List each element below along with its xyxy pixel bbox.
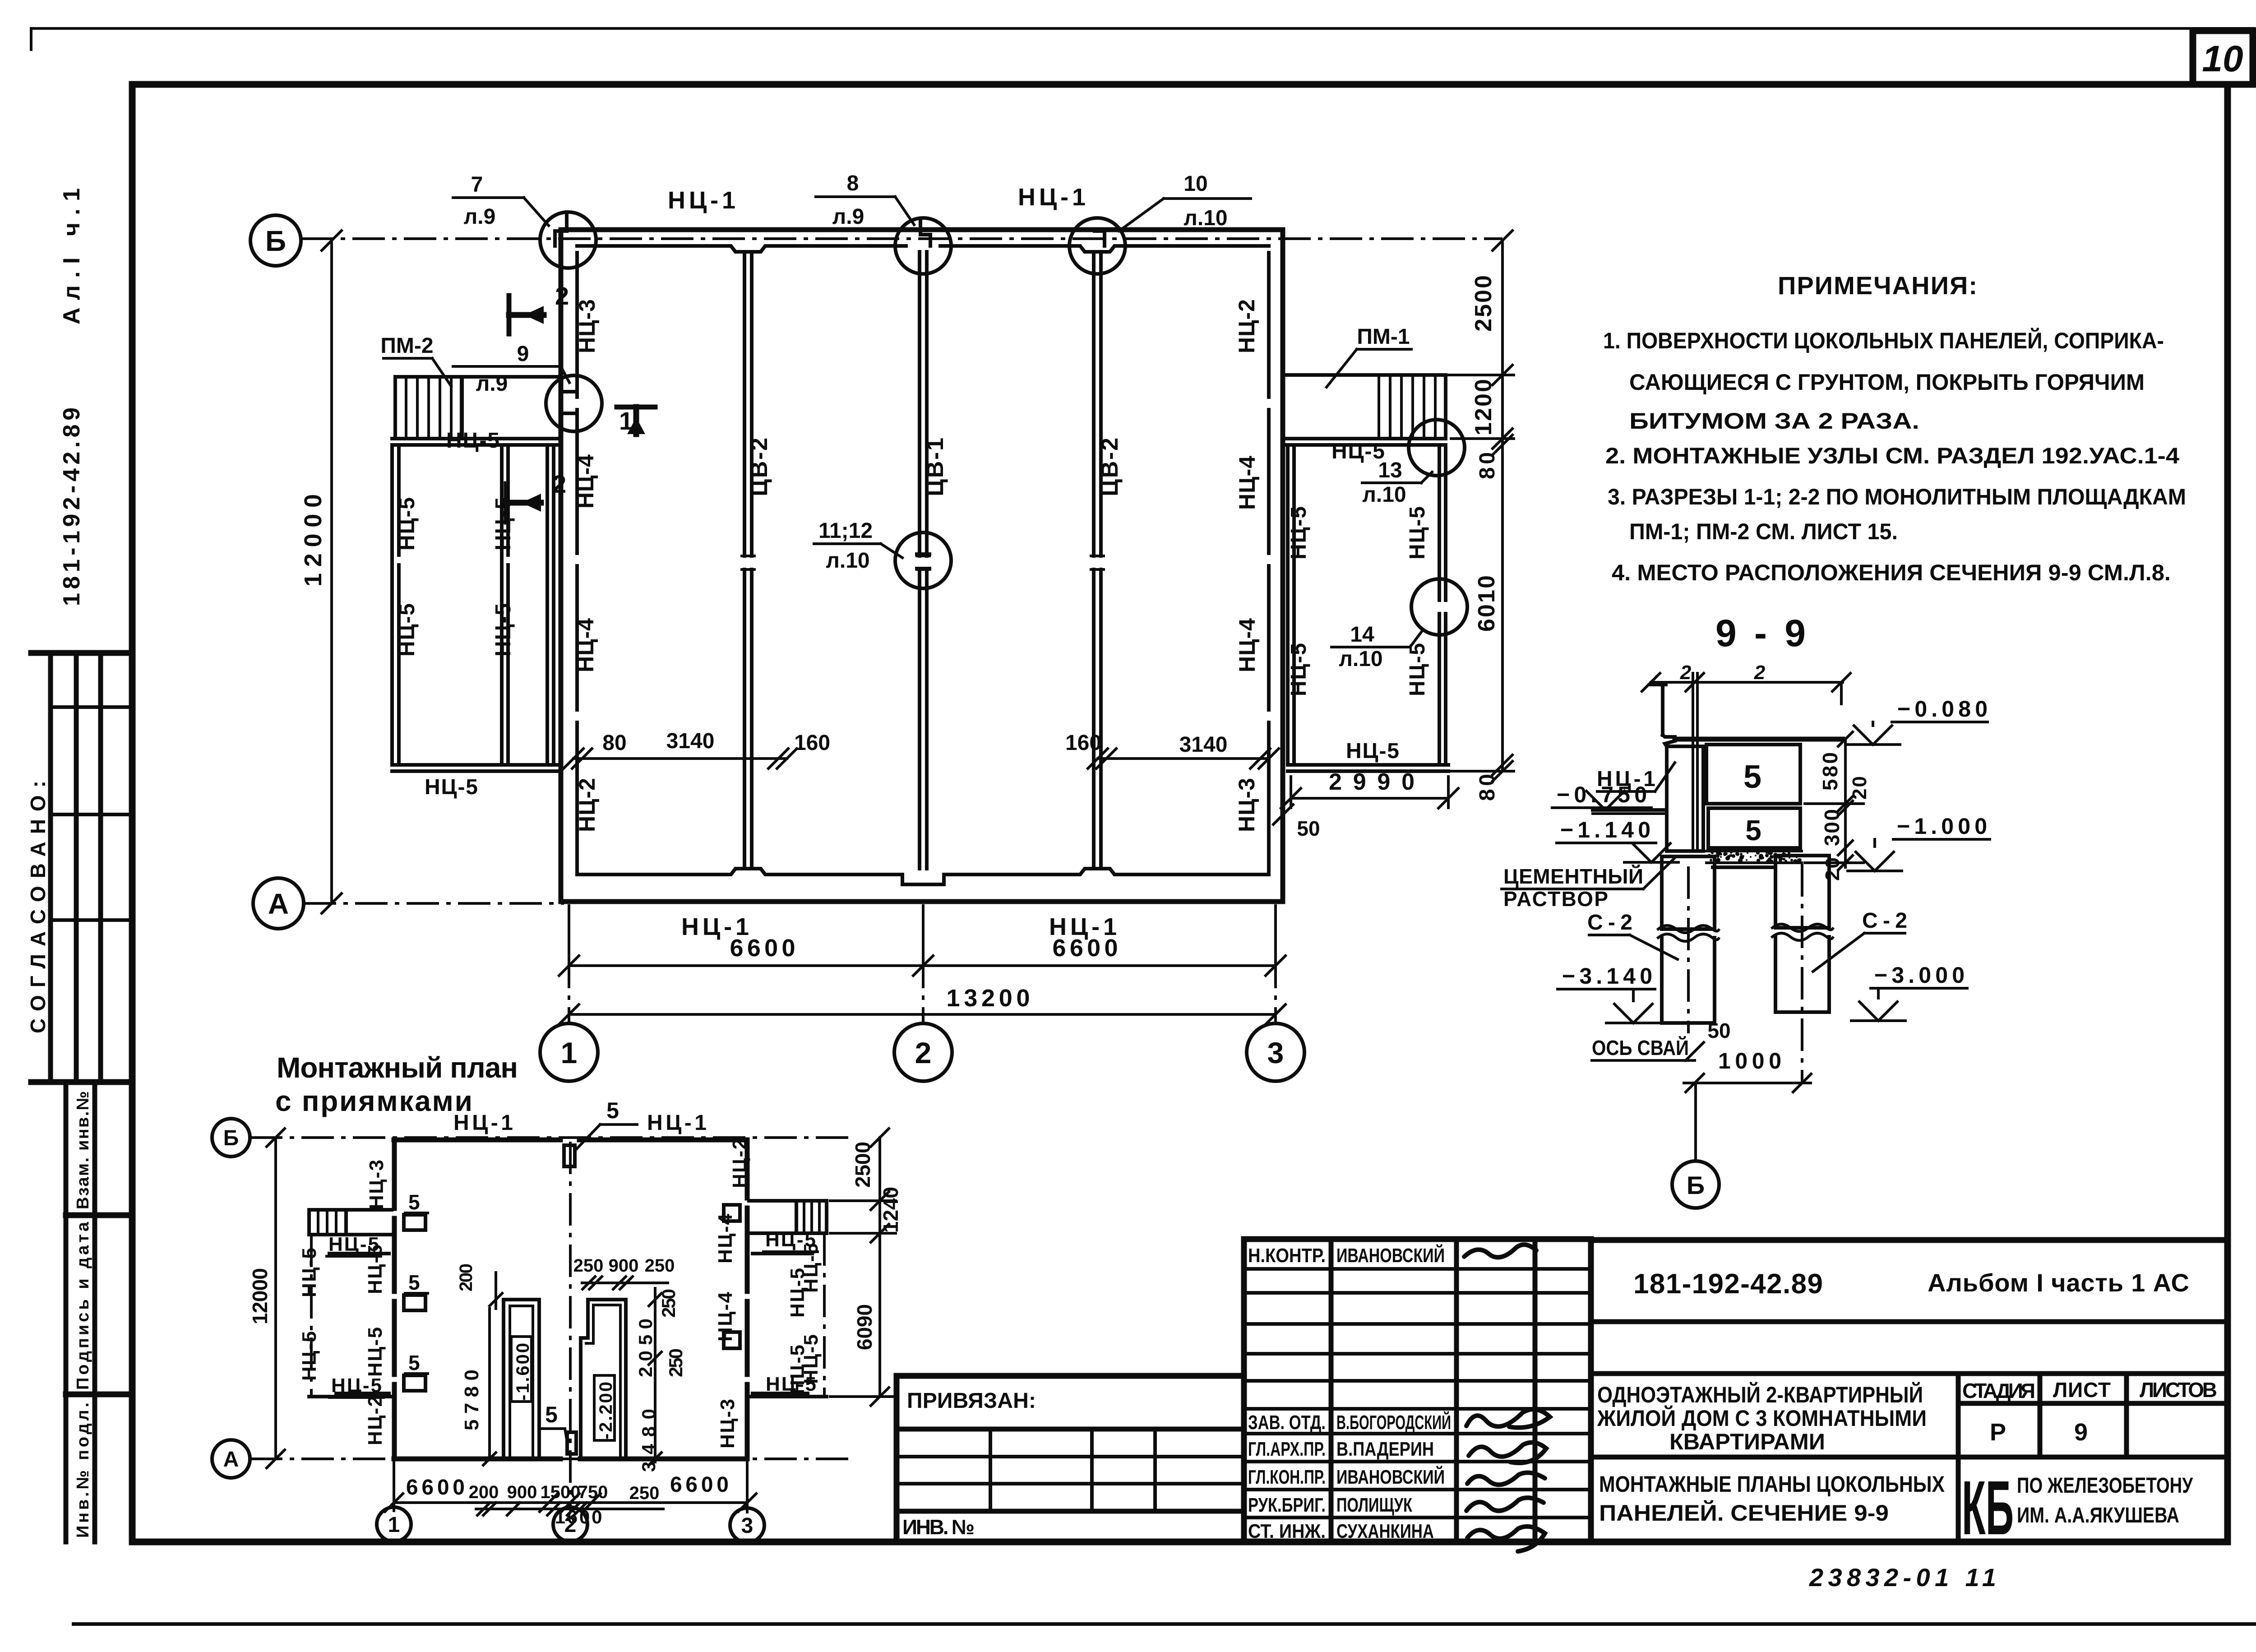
svg-text:л.10: л.10 — [1362, 483, 1406, 507]
svg-text:-2.200: -2.200 — [596, 1382, 616, 1439]
dim 2990 — [1281, 769, 1458, 808]
svg-text:181-192-42.89: 181-192-42.89 — [1633, 1268, 1823, 1300]
svg-text:Подпись и дата: Подпись и дата — [74, 1222, 92, 1390]
привязан label — [907, 1389, 1038, 1413]
partition ЦВ-1 — [917, 252, 929, 869]
svg-text:НЦ-5: НЦ-5 — [328, 1233, 379, 1255]
axis 3 stub (lower) — [746, 1462, 749, 1512]
svg-text:л.10: л.10 — [826, 549, 869, 573]
svg-text:750: 750 — [578, 1482, 608, 1502]
label Взам. инв.№ — [74, 1091, 92, 1209]
pile С-2 left — [1658, 856, 1719, 1023]
svg-text:ЛИСТ: ЛИСТ — [2053, 1378, 2111, 1402]
note line 6 — [1629, 519, 1898, 544]
svg-text:9-9: 9-9 — [1715, 612, 1806, 654]
svg-text:ЦВ-2: ЦВ-2 — [1097, 438, 1123, 496]
note line 4 — [1605, 443, 2179, 468]
svg-text:ЦВ-1: ЦВ-1 — [922, 438, 948, 496]
lower label НЦ-5 — [329, 1374, 384, 1397]
svg-text:НЦ-4: НЦ-4 — [714, 1291, 736, 1342]
svg-text:80: 80 — [602, 731, 626, 755]
wall panel label НЦ-3 — [1234, 778, 1259, 832]
lower label НЦ-5 rot — [364, 1327, 386, 1377]
note line 1 — [1603, 328, 2164, 353]
left margin code 181-192-42.89 — [59, 407, 85, 606]
project name line 2 — [1597, 1405, 1927, 1431]
svg-text:ПАНЕЛЕЙ. СЕЧЕНИЕ 9-9: ПАНЕЛЕЙ. СЕЧЕНИЕ 9-9 — [1599, 1500, 1889, 1526]
svg-text:ПОЛИЩУК: ПОЛИЩУК — [1336, 1494, 1412, 1516]
ground line left — [1593, 810, 1667, 814]
partition ЦВ-2 — [742, 252, 754, 869]
left annex west wall НЦ-5 — [392, 445, 399, 765]
leader 10 л.10 — [1119, 172, 1251, 231]
wall panel label НЦ-2 — [574, 778, 600, 832]
stage Р — [1990, 1419, 2006, 1446]
lower right annex pad — [749, 1201, 827, 1233]
annex panel label НЦ-5 — [491, 497, 515, 551]
axis circle 1 — [540, 1023, 598, 1081]
label НЦ-1 lower top left — [453, 1111, 513, 1135]
leader 13 л.10 — [1362, 458, 1432, 507]
svg-text:НЦ-4: НЦ-4 — [1234, 618, 1260, 672]
left annex monolithic pad ПМ-2 — [395, 377, 561, 439]
cement mortar band — [1706, 851, 1802, 864]
привязан table grid — [897, 1376, 1244, 1542]
header ЛИСТОВ — [2140, 1378, 2217, 1402]
svg-text:3. РАЗРЕЗЫ 1-1; 2-2 ПО МОНОЛИТ: 3. РАЗРЕЗЫ 1-1; 2-2 ПО МОНОЛИТНЫМ ПЛОЩАД… — [1608, 484, 2186, 509]
annex panel label НЦ-5 — [1287, 506, 1311, 560]
wall panel label НЦ-4 — [573, 454, 598, 509]
svg-text:3140: 3140 — [1179, 733, 1228, 757]
annex panel label НЦ-5 — [446, 429, 499, 453]
dim 6600 1600 6600 (lower bottom) — [385, 1473, 756, 1527]
wall panel label НЦ-4 — [573, 618, 598, 672]
signature squiggle 2 — [1466, 1409, 1550, 1428]
svg-text:Р: Р — [1990, 1419, 2006, 1446]
lower left annex pad — [309, 1210, 392, 1235]
svg-text:10: 10 — [2202, 38, 2243, 79]
dim 50 (pile axis offset) — [1707, 1019, 1730, 1042]
svg-text:5: 5 — [408, 1190, 420, 1214]
svg-text:Б: Б — [265, 225, 286, 257]
pit 1 (-1.600) — [504, 1300, 539, 1459]
svg-text:л.9: л.9 — [464, 205, 496, 229]
label НЦ-1 bottom right — [1049, 913, 1117, 940]
svg-text:НЦ-1: НЦ-1 — [453, 1111, 513, 1135]
lower label НЦ-4 rot — [714, 1291, 736, 1342]
level -1.140 — [1557, 817, 1678, 862]
axis 2 line (lower) — [569, 1142, 572, 1511]
svg-text:НЦ-1: НЦ-1 — [647, 1111, 707, 1135]
left annex inner wall НЦ-5 (b) — [547, 445, 554, 765]
detail circle 13 л.10 — [1409, 420, 1465, 476]
svg-text:с приямками: с приямками — [275, 1085, 472, 1117]
detail circle 7 л.9 — [540, 212, 596, 268]
logo по железобетону — [2017, 1474, 2193, 1498]
svg-text:НЦ-5: НЦ-5 — [1287, 506, 1311, 560]
svg-text:300: 300 — [1820, 809, 1844, 846]
svg-text:НЦ-5: НЦ-5 — [395, 497, 419, 551]
dim 12000 (lower) — [248, 1129, 285, 1468]
label Подпись и дата — [74, 1222, 92, 1390]
svg-text:250: 250 — [629, 1483, 660, 1503]
svg-text:5: 5 — [1745, 814, 1761, 847]
marker 5 bottom — [540, 1402, 576, 1454]
wall НЦ-1 along А (bottom) — [561, 869, 1283, 902]
detail circle 9 л.9 — [546, 375, 602, 431]
lower left inventory table — [66, 1082, 129, 1542]
dim 200 (pit1 top) — [456, 1263, 502, 1309]
svg-text:160: 160 — [1065, 731, 1101, 755]
svg-text:НЦ-3: НЦ-3 — [717, 1399, 739, 1448]
level -3.000 — [1851, 963, 1967, 1021]
svg-text:ЦЕМЕНТНЫЙ: ЦЕМЕНТНЫЙ — [1503, 865, 1643, 888]
инв № label — [902, 1515, 975, 1539]
wall panel label НЦ-3 — [574, 299, 600, 353]
svg-text:НЦ-2: НЦ-2 — [729, 1138, 751, 1188]
axis Б line (lower) — [250, 1136, 855, 1139]
wall panel label НЦ-4 — [1234, 456, 1260, 510]
header СТАДИЯ — [1962, 1379, 2035, 1402]
svg-text:ЦВ-2: ЦВ-2 — [746, 438, 772, 496]
axis 2 line — [922, 904, 925, 1022]
left annex inner wall НЦ-5 (a) — [502, 445, 508, 765]
leader 9 л.9 — [453, 342, 569, 396]
annex panel label НЦ-5 — [395, 603, 419, 657]
svg-text:НЦ-4: НЦ-4 — [714, 1213, 736, 1263]
svg-text:ИВАНОВСКИЙ: ИВАНОВСКИЙ — [1336, 1465, 1445, 1488]
svg-text:НЦ-5: НЦ-5 — [1405, 506, 1429, 560]
label НЦ-1 top right — [1018, 184, 1086, 211]
label НЦ-1 bottom left — [681, 913, 749, 940]
signature row Гл.арх.пр. В.Падерин — [1248, 1438, 1434, 1460]
partition ЦВ-2 — [1091, 252, 1104, 869]
svg-text:5: 5 — [408, 1271, 420, 1294]
label С-2 left — [1587, 911, 1678, 959]
handwritten 23832-01 11 — [1809, 1563, 1999, 1592]
partition label ЦВ-2 — [746, 438, 772, 496]
lower plan left wall — [392, 1140, 397, 1459]
svg-text:23832-01 11: 23832-01 11 — [1809, 1563, 1999, 1592]
svg-text:л.9: л.9 — [476, 372, 508, 396]
logo им. А.А.Якушева — [2017, 1504, 2179, 1527]
svg-text:А: А — [268, 888, 289, 920]
annex panel label НЦ-5 — [425, 775, 478, 799]
svg-text:580: 580 — [1818, 752, 1842, 791]
joint step in circle 8 — [920, 220, 930, 246]
joint step in circle 7 — [555, 212, 567, 246]
svg-text:НЦ-4: НЦ-4 — [1234, 456, 1260, 510]
svg-text:Н.КОНТР.: Н.КОНТР. — [1248, 1245, 1326, 1267]
project name line 3 — [1669, 1429, 1825, 1454]
annex panel label НЦ-5 — [1287, 643, 1311, 696]
axis circle 3 — [1247, 1023, 1304, 1081]
marker 5 left 1 — [404, 1190, 428, 1230]
svg-text:ПРИВЯЗАН:: ПРИВЯЗАН: — [907, 1389, 1038, 1413]
svg-text:Б: Б — [1687, 1171, 1705, 1199]
annex panel label НЦ-5 — [1405, 643, 1429, 696]
svg-text:11;12: 11;12 — [818, 519, 873, 543]
СОГЛАСОВАНО label — [26, 781, 50, 1033]
project name line 1 — [1597, 1382, 1923, 1407]
svg-text:3: 3 — [1267, 1036, 1284, 1069]
level -3.140 — [1558, 963, 1660, 1023]
lower label НЦ-5 rot — [800, 1243, 822, 1293]
svg-text:ЗАВ. ОТД.: ЗАВ. ОТД. — [1248, 1411, 1326, 1434]
svg-text:ИМ. А.А.ЯКУШЕВА: ИМ. А.А.ЯКУШЕВА — [2017, 1504, 2179, 1527]
marker 5 left 3 — [404, 1351, 428, 1391]
marker 5 left 2 — [404, 1271, 428, 1310]
wall axis double line — [1693, 673, 1697, 851]
signature row Гл.кон.пр. Ивановский — [1248, 1465, 1445, 1488]
svg-text:ОДНОЭТАЖНЫЙ 2-КВАРТИРНЫЙ: ОДНОЭТАЖНЫЙ 2-КВАРТИРНЫЙ — [1597, 1382, 1923, 1407]
title Монтажный план — [277, 1051, 518, 1084]
svg-text:МОНТАЖНЫЕ ПЛАНЫ ЦОКОЛЬНЫХ: МОНТАЖНЫЕ ПЛАНЫ ЦОКОЛЬНЫХ — [1599, 1472, 1945, 1497]
svg-text:НЦ-3: НЦ-3 — [1234, 778, 1259, 832]
svg-text:ПО ЖЕЛЕЗОБЕТОНУ: ПО ЖЕЛЕЗОБЕТОНУ — [2017, 1474, 2193, 1498]
dim 5780 — [461, 1309, 496, 1465]
page trim bottom line — [74, 1622, 2256, 1626]
svg-text:В.БОГОРОДСКИЙ: В.БОГОРОДСКИЙ — [1336, 1411, 1451, 1434]
note line 7 — [1612, 560, 2171, 585]
svg-text:3140: 3140 — [666, 729, 715, 753]
lower label НЦ-5 rot — [800, 1334, 822, 1384]
svg-text:14: 14 — [1350, 623, 1374, 647]
sheet name line 2 — [1599, 1500, 1889, 1526]
label ось свай — [1592, 1036, 1704, 1060]
wall НЦ-1 along Б (top) — [561, 230, 1283, 252]
annex panel label НЦ-5 — [1405, 506, 1429, 560]
dim 6600+6600 — [559, 918, 1285, 976]
svg-text:САЮЩИЕСЯ С ГРУНТОМ, ПОКРЫТЬ ГО: САЮЩИЕСЯ С ГРУНТОМ, ПОКРЫТЬ ГОРЯЧИМ — [1629, 370, 2145, 395]
signature squiggle 1 — [1464, 1245, 1536, 1257]
svg-text:8: 8 — [847, 171, 859, 195]
lower label НЦ-3 rot — [717, 1399, 739, 1448]
svg-text:ЖИЛОЙ ДОМ С 3 КОМНАТНЫМИ: ЖИЛОЙ ДОМ С 3 КОМНАТНЫМИ — [1597, 1405, 1927, 1431]
lower label НЦ-5 rot — [298, 1248, 320, 1297]
svg-text:л.9: л.9 — [832, 205, 864, 229]
svg-text:НЦ-5: НЦ-5 — [765, 1229, 816, 1251]
dim 1000 — [1684, 1048, 1811, 1092]
svg-text:РАСТВОР: РАСТВОР — [1503, 887, 1608, 911]
label НЦ-1 top left — [668, 187, 735, 214]
signature squiggle 5 — [1466, 1498, 1544, 1511]
label цементный раствор — [1502, 858, 1675, 911]
svg-text:5: 5 — [545, 1402, 558, 1427]
svg-text:5: 5 — [606, 1098, 619, 1123]
svg-text:1500: 1500 — [541, 1482, 581, 1502]
svg-text:5: 5 — [408, 1351, 420, 1374]
svg-text:РУК.БРИГ.: РУК.БРИГ. — [1248, 1494, 1326, 1516]
pit 2 (-2.200) — [581, 1300, 626, 1459]
svg-text:НЦ-5: НЦ-5 — [331, 1374, 382, 1397]
svg-text:Альбом I часть 1 АС: Альбом I часть 1 АС — [1928, 1268, 2189, 1297]
marker rect right wall a — [724, 1205, 740, 1221]
lower left annex inner lines — [329, 1254, 389, 1393]
annex panel label НЦ-5 — [1331, 440, 1385, 463]
svg-text:13200: 13200 — [947, 985, 1030, 1012]
svg-text:А: А — [223, 1448, 239, 1472]
svg-text:2: 2 — [1680, 662, 1692, 684]
signature squiggle 4 — [1467, 1473, 1545, 1485]
lower label НЦ-5 — [327, 1233, 381, 1256]
svg-text:2: 2 — [555, 282, 569, 310]
svg-text:л.10: л.10 — [1339, 647, 1382, 671]
dim chain 2500 1240 6090 (lower right) — [830, 1129, 902, 1406]
logo КБ — [1962, 1465, 2014, 1551]
dim 250 900 250 (pits top) — [573, 1256, 675, 1289]
svg-text:НЦ-5: НЦ-5 — [298, 1331, 320, 1381]
svg-text:50: 50 — [1297, 817, 1320, 840]
partition label ЦВ-1 — [922, 438, 948, 496]
lower left annex bottom НЦ-5 — [309, 1395, 392, 1398]
block 5 upper — [1706, 745, 1800, 804]
svg-text:2: 2 — [552, 470, 566, 498]
svg-text:ЛИСТОВ: ЛИСТОВ — [2140, 1378, 2217, 1402]
left annex НЦ-5 top panel — [392, 439, 561, 445]
panel НЦ-1 in section — [1665, 741, 1703, 851]
axis 3 line — [1274, 904, 1277, 1022]
dim row 200 900 1500 750 250 — [469, 1482, 663, 1515]
dim row 80 3140 160 (left) — [564, 729, 830, 768]
axis circle А — [253, 878, 304, 929]
lower axis circle Б — [212, 1119, 250, 1157]
svg-text:5: 5 — [1743, 759, 1761, 795]
svg-text:1: 1 — [561, 1036, 578, 1069]
svg-text:250: 250 — [645, 1256, 675, 1276]
signature table grid — [1244, 1239, 1591, 1542]
section mark 2 lower — [506, 470, 566, 522]
label С-2 right — [1813, 909, 1907, 972]
svg-text:181-192-42.89: 181-192-42.89 — [59, 407, 85, 606]
header ЛИСТ — [2053, 1378, 2111, 1402]
grillage line between piles — [1713, 865, 1775, 869]
pile С-2 right — [1772, 856, 1833, 1012]
svg-text:50: 50 — [1707, 1019, 1730, 1042]
pile axes — [1688, 864, 1802, 1083]
svg-text:НЦ-4: НЦ-4 — [573, 618, 598, 672]
svg-text:1240: 1240 — [879, 1187, 902, 1233]
joint step in circle 11,12 — [917, 554, 929, 569]
album Альбом I часть 1 АС — [1928, 1268, 2189, 1297]
svg-text:ГЛ.КОН.ПР.: ГЛ.КОН.ПР. — [1248, 1466, 1326, 1488]
axis Б line — [301, 237, 1502, 240]
note line 5 — [1608, 484, 2186, 509]
lower plan right wall — [745, 1140, 750, 1459]
lower label НЦ-5 rot — [786, 1268, 809, 1318]
axis 1 line — [568, 904, 570, 1022]
signature row Рук.бриг. Полищук — [1248, 1494, 1412, 1516]
svg-text:ПМ-1: ПМ-1 — [1357, 325, 1410, 349]
sheet number box — [2193, 31, 2253, 84]
svg-text:НЦ-5: НЦ-5 — [1331, 440, 1385, 463]
lower label НЦ-5 — [763, 1229, 818, 1252]
signature row Ст. инж. Суханкина — [1248, 1520, 1434, 1542]
svg-text:2500: 2500 — [851, 1142, 874, 1188]
section mark 2 upper — [509, 282, 569, 334]
svg-text:250: 250 — [658, 1289, 679, 1318]
svg-text:НЦ-3: НЦ-3 — [574, 299, 600, 353]
note line 2 — [1629, 370, 2145, 395]
axis А line — [304, 902, 564, 905]
signature row Н.контр. Ивановский — [1248, 1244, 1445, 1267]
svg-text:КВАРТИРАМИ: КВАРТИРАМИ — [1669, 1429, 1825, 1454]
leader 8 л.9 — [816, 171, 914, 229]
svg-text:6090: 6090 — [853, 1304, 876, 1350]
svg-text:л.10: л.10 — [1183, 206, 1227, 230]
section title 9-9 — [1715, 612, 1806, 654]
doc number 181-192-42.89 — [1633, 1268, 1823, 1300]
svg-text:НЦ-3: НЦ-3 — [365, 1160, 388, 1209]
marker 5 top — [564, 1098, 637, 1166]
lower right annex east wall (dashed) — [823, 1233, 826, 1397]
dim 13200 — [559, 985, 1285, 1024]
wall panel label НЦ-2 — [1234, 299, 1259, 353]
axis А line (lower) — [250, 1458, 848, 1460]
level -0.080 — [1846, 696, 1988, 745]
axis circle 2 — [894, 1023, 952, 1081]
svg-text:ИНВ. №: ИНВ. № — [902, 1515, 975, 1539]
svg-text:С-2: С-2 — [1862, 909, 1907, 933]
svg-text:10: 10 — [1183, 172, 1207, 196]
lower right annex bottom НЦ-5 — [749, 1395, 827, 1398]
svg-text:4. МЕСТО РАСПОЛОЖЕНИЯ СЕЧЕНИЯ: 4. МЕСТО РАСПОЛОЖЕНИЯ СЕЧЕНИЯ 9-9 СМ.Л.8… — [1612, 560, 2171, 585]
signature row Зав. отд. В.Богородский — [1248, 1411, 1451, 1434]
svg-text:НЦ-1: НЦ-1 — [668, 187, 735, 214]
lower label НЦ-2 rot — [729, 1138, 751, 1188]
lower axis circle 2 — [553, 1507, 587, 1541]
svg-text:ПРИМЕЧАНИЯ:: ПРИМЕЧАНИЯ: — [1778, 271, 1981, 300]
svg-text:1. ПОВЕРХНОСТИ ЦОКОЛЬНЫХ ПАНЕЛ: 1. ПОВЕРХНОСТИ ЦОКОЛЬНЫХ ПАНЕЛЕЙ, СОПРИК… — [1603, 328, 2164, 353]
joint step in circle 9 — [564, 392, 574, 413]
svg-text:ОСЬ СВАЙ: ОСЬ СВАЙ — [1592, 1036, 1689, 1060]
svg-text:КБ: КБ — [1962, 1465, 2014, 1551]
svg-text:В.ПАДЕРИН: В.ПАДЕРИН — [1336, 1438, 1434, 1460]
signature squiggle 3 — [1469, 1443, 1546, 1463]
title block verticals — [1958, 1374, 2228, 1542]
lower label НЦ-4 rot — [714, 1213, 736, 1263]
svg-text:250: 250 — [665, 1348, 686, 1377]
block 5 lower — [1708, 808, 1800, 848]
svg-text:250: 250 — [573, 1256, 604, 1276]
svg-text:СУХАНКИНА: СУХАНКИНА — [1336, 1520, 1434, 1542]
wall panel label НЦ-4 — [1234, 618, 1260, 672]
detail circle 11,12 л.10 — [895, 532, 951, 588]
svg-text:НЦ-5: НЦ-5 — [395, 603, 419, 657]
partition label ЦВ-2 — [1097, 438, 1123, 496]
svg-text:НЦ-5: НЦ-5 — [364, 1327, 386, 1377]
svg-text:ПМ-1; ПМ-2 СМ. ЛИСТ 15.: ПМ-1; ПМ-2 СМ. ЛИСТ 15. — [1629, 519, 1898, 544]
svg-text:2: 2 — [1754, 662, 1766, 684]
label НЦ-1 section — [1597, 763, 1675, 791]
level -1.000 — [1848, 814, 1990, 871]
sheet name line 1 — [1599, 1472, 1945, 1497]
svg-text:БИТУМОМ ЗА 2 РАЗА.: БИТУМОМ ЗА 2 РАЗА. — [1629, 408, 1919, 434]
dim row 160 3140 (right) — [1065, 731, 1279, 768]
axis 1 stub (lower) — [393, 1462, 395, 1511]
right annex west wall НЦ-5 — [1288, 445, 1294, 765]
svg-text:ИВАНОВСКИЙ: ИВАНОВСКИЙ — [1336, 1244, 1445, 1267]
label Инв.№ подл. — [74, 1402, 92, 1538]
annex panel label НЦ-5 — [395, 497, 419, 551]
svg-text:9: 9 — [2074, 1419, 2088, 1446]
section dim chain 580 20 300 20 — [1805, 732, 1871, 881]
svg-text:НЦ-1: НЦ-1 — [1018, 184, 1086, 211]
marker rect right wall b — [724, 1332, 740, 1348]
lower axis circle А — [212, 1440, 250, 1478]
axis circle Б — [250, 215, 301, 266]
svg-text:ПМ-2: ПМ-2 — [380, 334, 433, 358]
